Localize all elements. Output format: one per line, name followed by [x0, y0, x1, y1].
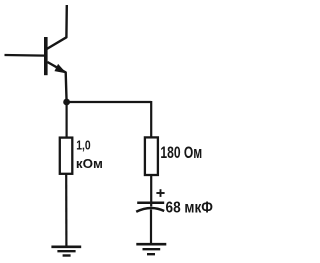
svg-text:кОм: кОм: [76, 156, 103, 171]
transistor Q1 base lead: [5, 54, 46, 57]
transistor Q1 emitter arrowhead: [55, 65, 65, 73]
resistor R2 body: [145, 137, 158, 175]
resistor R1 body: [60, 138, 73, 174]
node A: emitter junction dot: [63, 99, 70, 106]
wire: junction down to resistor R1: [65, 102, 67, 138]
wire: R1 to left ground: [65, 174, 67, 246]
svg-text:68 мкФ: 68 мкФ: [166, 200, 213, 217]
svg-text:1,0: 1,0: [76, 137, 90, 152]
transistor Q1: [46, 5, 67, 102]
wire: C1 to right ground: [150, 210, 152, 244]
ground (right): [136, 244, 166, 254]
svg-text:180 Ом: 180 Ом: [160, 144, 202, 162]
capacitor C1 polarity plus sign: [156, 189, 164, 197]
wire: junction to right branch corner: [67, 101, 152, 103]
wire: R2 to capacitor C1: [150, 175, 152, 207]
capacitor C1: [136, 203, 164, 212]
ground (left): [51, 247, 81, 256]
wire: right corner down to resistor R2: [150, 101, 152, 138]
